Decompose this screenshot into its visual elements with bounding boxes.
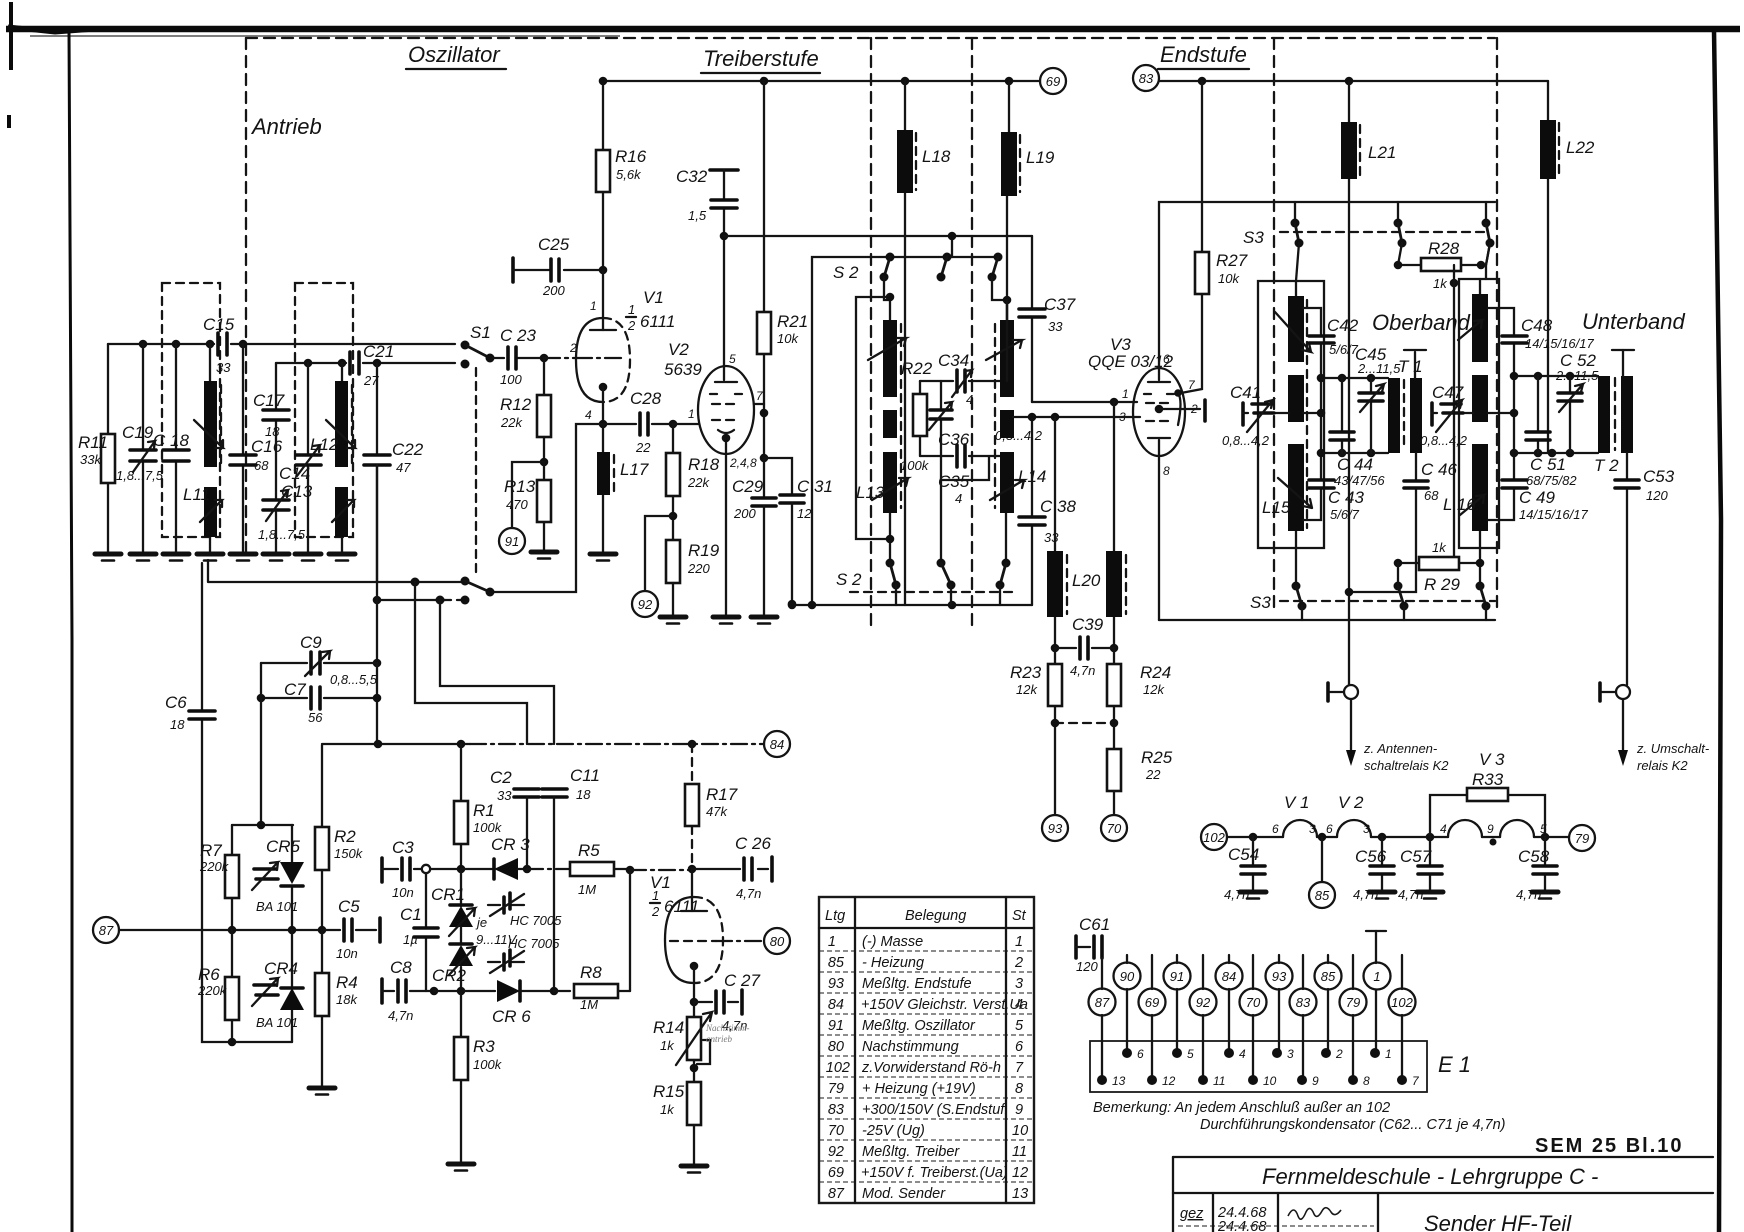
svg-text:6: 6 — [1015, 1039, 1024, 1055]
capacitor C58 to ground — [1541, 833, 1550, 842]
svg-text:R5: R5 — [578, 841, 600, 860]
svg-text:T 2: T 2 — [1594, 456, 1619, 475]
capacitor C7 — [261, 663, 377, 744]
svg-text:C56: C56 — [1355, 847, 1387, 866]
capacitor C53 — [1626, 453, 1628, 685]
svg-text:- Heizung: - Heizung — [862, 955, 924, 971]
svg-text:V 1: V 1 — [1284, 793, 1310, 812]
svg-text:C53: C53 — [1643, 467, 1675, 486]
svg-text:L21: L21 — [1368, 143, 1396, 162]
svg-text:200: 200 — [542, 283, 565, 298]
G_VARACTOR — [322, 740, 764, 1171]
capacitor C21 — [350, 352, 359, 374]
svg-text:91: 91 — [505, 534, 519, 549]
heater V1 — [1283, 820, 1317, 837]
svg-text:9: 9 — [1487, 822, 1494, 836]
node bridge right mid — [288, 926, 297, 935]
capacitor C29 — [763, 458, 765, 498]
inductor L21 — [1348, 81, 1350, 685]
node bridge left mid — [228, 926, 237, 935]
G_V2 — [599, 68, 1066, 624]
pentode V2 5639 — [698, 366, 754, 454]
resistor R19 — [666, 540, 680, 583]
svg-text:8: 8 — [1163, 464, 1170, 478]
svg-text:4,7n: 4,7n — [1070, 663, 1095, 678]
svg-text:220k: 220k — [199, 859, 230, 874]
svg-text:St: St — [1012, 908, 1027, 924]
svg-text:C39: C39 — [1072, 615, 1104, 634]
svg-text:12: 12 — [797, 506, 812, 521]
resistor R4 — [321, 930, 323, 1086]
terminal 92 to pin 11 — [1202, 955, 1204, 1080]
diode CR3 — [494, 858, 518, 880]
svg-text:102: 102 — [1391, 995, 1413, 1010]
svg-text:220: 220 — [687, 561, 710, 576]
svg-text:79: 79 — [828, 1081, 844, 1097]
svg-text:S 2: S 2 — [836, 570, 862, 589]
svg-text:70: 70 — [1107, 821, 1122, 836]
svg-text:83: 83 — [1296, 995, 1311, 1010]
svg-text:L13: L13 — [856, 483, 885, 502]
trimmer capacitor C9 — [261, 662, 377, 664]
svg-text:10k: 10k — [777, 331, 799, 346]
sheet right border — [1714, 30, 1721, 1232]
zener CR2 — [460, 927, 462, 944]
svg-text:+150V Gleichstr. Verst.Ua: +150V Gleichstr. Verst.Ua — [861, 997, 1028, 1013]
svg-text:1: 1 — [590, 299, 597, 313]
capacitor C11 — [542, 789, 567, 797]
svg-text:antrieb: antrieb — [706, 1034, 732, 1044]
S2 ganged-switch dashed linkage lines — [870, 38, 872, 630]
svg-text:R2: R2 — [334, 827, 356, 846]
svg-text:T 1: T 1 — [1398, 357, 1423, 376]
svg-text:CR2: CR2 — [432, 966, 467, 985]
svg-text:C1: C1 — [400, 905, 422, 924]
svg-text:0,8...4,2: 0,8...4,2 — [1222, 433, 1270, 448]
terminal 93 to pin 3 — [1278, 955, 1280, 1053]
sheet top border — [6, 26, 1740, 33]
wire +300V Endstufe bus — [1159, 80, 1548, 82]
wire C34/C35 rows to L14 — [941, 300, 1007, 480]
T2 primary rows — [1514, 376, 1598, 453]
resistor R7 — [231, 825, 233, 930]
capacitor C5 (feedthrough) — [322, 929, 376, 931]
row B wire — [430, 987, 439, 996]
svg-text:2: 2 — [651, 904, 660, 919]
ground under C29 — [751, 617, 777, 624]
capacitor C44 — [1341, 378, 1343, 453]
G_V3 — [1010, 65, 1548, 841]
svg-text:R13: R13 — [504, 477, 536, 496]
terminal 84 — [764, 731, 790, 757]
svg-text:Meßltg. Endstufe: Meßltg. Endstufe — [862, 976, 972, 992]
svg-text:102: 102 — [826, 1060, 850, 1076]
svg-text:68: 68 — [254, 458, 269, 473]
ground under R13 — [531, 552, 557, 559]
svg-text:12: 12 — [1012, 1165, 1028, 1181]
potentiometer R14 — [693, 1002, 695, 1017]
node dots on buses — [139, 340, 148, 349]
capacitor C51 — [1537, 376, 1539, 453]
svg-text:+150V f. Treiberst.(Ua): +150V f. Treiberst.(Ua) — [861, 1165, 1008, 1181]
svg-text:C5: C5 — [338, 897, 360, 916]
svg-text:91: 91 — [828, 1018, 844, 1034]
svg-text:z. Antennen-: z. Antennen- — [1363, 741, 1438, 756]
L15 tank box — [1258, 281, 1324, 548]
svg-text:R3: R3 — [473, 1037, 495, 1056]
terminal 87 to pin 13 — [1101, 958, 1103, 1080]
svg-text:1M: 1M — [578, 882, 596, 897]
svg-text:1: 1 — [828, 934, 836, 950]
svg-text:S3: S3 — [1243, 228, 1264, 247]
svg-text:C57: C57 — [1400, 847, 1432, 866]
svg-text:3: 3 — [1119, 410, 1126, 424]
svg-text:C41: C41 — [1230, 383, 1261, 402]
wire R5/R8 junction vertical — [629, 870, 631, 991]
resistor R18 — [672, 424, 674, 540]
ground under L17 — [590, 554, 616, 561]
switch S1 lower pole — [208, 560, 465, 582]
svg-text:R19: R19 — [688, 541, 720, 560]
svg-text:L17: L17 — [620, 460, 649, 479]
svg-text:C15: C15 — [203, 315, 235, 334]
svg-text:je: je — [475, 915, 487, 930]
wire 87 to bridge — [119, 929, 322, 931]
svg-text:100: 100 — [500, 372, 522, 387]
inductor L15 (tapped coil) — [1295, 281, 1297, 586]
node grid V1 — [540, 354, 549, 363]
wire tank output to V3 grid 3 — [1013, 416, 1140, 418]
svg-text:1: 1 — [1385, 1047, 1392, 1061]
tunnel diode HC7005 lower — [488, 961, 524, 963]
capacitor C32 — [710, 168, 738, 172]
svg-text:14/15/16/17: 14/15/16/17 — [1519, 507, 1588, 522]
svg-text:R15: R15 — [653, 1082, 685, 1101]
svg-text:S1: S1 — [470, 323, 491, 342]
ground under C13 — [263, 554, 289, 561]
inductor L14 (tapped coil) — [992, 277, 1007, 563]
terminal 79 to pin 8 — [1352, 955, 1354, 1080]
svg-text:C 43: C 43 — [1328, 488, 1364, 507]
capacitor C22 — [376, 363, 378, 582]
svg-text:C3: C3 — [392, 838, 414, 857]
svg-text:2: 2 — [1014, 955, 1023, 971]
svg-text:1: 1 — [688, 407, 695, 421]
svg-text:C7: C7 — [284, 680, 306, 699]
svg-text:6: 6 — [1272, 822, 1279, 836]
svg-text:CR1: CR1 — [431, 885, 465, 904]
svg-text:R33: R33 — [1472, 770, 1504, 789]
capacitor C26 (feedthrough) — [692, 868, 768, 870]
svg-text:5: 5 — [1015, 1018, 1024, 1034]
svg-text:1: 1 — [1015, 934, 1023, 950]
svg-text:CR 6: CR 6 — [492, 1007, 531, 1026]
svg-text:4,7n: 4,7n — [1516, 887, 1541, 902]
trimmer capacitor C52 — [1569, 376, 1571, 453]
G_MOD — [93, 563, 380, 1095]
switch S2 lower pole c — [1002, 559, 1011, 568]
svg-text:3: 3 — [1287, 1047, 1294, 1061]
svg-text:C6: C6 — [165, 693, 187, 712]
svg-text:L18: L18 — [922, 147, 951, 166]
bias divider dashed link — [1055, 722, 1114, 724]
svg-text:C14: C14 — [279, 464, 310, 483]
inductor L19 — [1007, 81, 1009, 320]
wire V2 cathode — [725, 438, 727, 615]
wire feedback chain C22 to C9/C7 — [376, 465, 378, 663]
resistor R24 — [1113, 648, 1115, 749]
svg-text:70: 70 — [828, 1123, 844, 1139]
svg-text:4,7n: 4,7n — [1224, 887, 1249, 902]
svg-text:24.4.68: 24.4.68 — [1217, 1219, 1266, 1232]
wire oscillator top bus — [108, 343, 455, 345]
capacitor C31 — [780, 495, 804, 503]
svg-text:85: 85 — [1321, 969, 1336, 984]
svg-text:4,7n: 4,7n — [1353, 887, 1378, 902]
svg-text:1µ: 1µ — [403, 932, 418, 947]
ground under V2 cathode — [713, 617, 739, 624]
svg-text:L20: L20 — [1072, 571, 1101, 590]
varactor diode CR4 with trimmer — [291, 930, 293, 1042]
svg-text:4,7n: 4,7n — [736, 886, 761, 901]
svg-text:R1: R1 — [473, 801, 495, 820]
ground under R15 — [681, 1166, 707, 1173]
svg-text:83: 83 — [828, 1102, 844, 1118]
svg-text:18: 18 — [170, 717, 185, 732]
svg-text:relais K2: relais K2 — [1637, 758, 1688, 773]
svg-text:22k: 22k — [687, 475, 710, 490]
svg-text:C 49: C 49 — [1519, 488, 1555, 507]
resistor R25 — [1107, 749, 1121, 791]
svg-text:33: 33 — [1044, 530, 1059, 545]
svg-text:Meßltg. Treiber: Meßltg. Treiber — [862, 1144, 960, 1160]
svg-text:R4: R4 — [336, 973, 358, 992]
svg-text:4: 4 — [955, 491, 962, 506]
svg-text:HC 7005: HC 7005 — [510, 913, 562, 928]
zener CR1 — [460, 869, 462, 906]
svg-text:Fernmeldeschule - Lehrgruppe: Fernmeldeschule - Lehrgruppe C - — [1262, 1164, 1598, 1189]
svg-text:Ltg: Ltg — [825, 908, 845, 924]
capacitor C49 — [1488, 413, 1514, 520]
svg-text:1k: 1k — [660, 1102, 675, 1117]
svg-text:10n: 10n — [392, 885, 414, 900]
svg-text:92: 92 — [1196, 995, 1211, 1010]
wire S2 upper contact rail — [890, 256, 1000, 258]
svg-text:8: 8 — [1015, 1081, 1023, 1097]
node R14/R15 — [693, 1060, 695, 1082]
svg-text:V 3: V 3 — [1479, 750, 1505, 769]
svg-text:100k: 100k — [473, 1057, 503, 1072]
resistor R29 — [1398, 562, 1480, 564]
trimmer capacitor C14 — [307, 363, 309, 552]
inductor L16 (tapped coil) — [1479, 279, 1481, 586]
svg-text:9: 9 — [1312, 1074, 1319, 1088]
svg-text:4: 4 — [1440, 822, 1447, 836]
ground under R3 — [448, 1164, 474, 1171]
wire cathode feedback to S1 — [492, 424, 603, 592]
capacitor C27 (feedthrough) — [694, 1001, 738, 1003]
svg-text:69: 69 — [828, 1165, 844, 1181]
svg-text:2,4,8: 2,4,8 — [729, 456, 757, 470]
svg-text:4: 4 — [966, 392, 973, 407]
terminal 92 — [645, 516, 673, 591]
capacitor C61 (feedthrough) — [1074, 936, 1078, 958]
wire oscillator second bus — [276, 362, 455, 364]
svg-text:68: 68 — [1424, 488, 1439, 503]
svg-text:9: 9 — [1015, 1102, 1023, 1118]
svg-text:6: 6 — [1163, 352, 1170, 366]
svg-text:Mod. Sender: Mod. Sender — [862, 1186, 946, 1202]
capacitor C54 to ground — [1249, 833, 1258, 842]
svg-text:R12: R12 — [500, 395, 532, 414]
svg-text:Nachstimm-: Nachstimm- — [705, 1023, 750, 1033]
resistor R2 — [321, 745, 323, 930]
svg-text:L11: L11 — [183, 485, 210, 504]
G_V1TOP — [208, 81, 675, 605]
svg-text:87: 87 — [99, 923, 114, 938]
dashed box around L11 tank — [162, 283, 220, 537]
resistor R17 — [691, 744, 693, 784]
svg-text:2: 2 — [627, 318, 636, 333]
svg-text:BA 101: BA 101 — [256, 899, 298, 914]
svg-text:V2: V2 — [668, 340, 689, 359]
terminal 70 — [1101, 815, 1127, 841]
terminal 84 to pin 4 — [1228, 955, 1230, 1053]
svg-text:C2: C2 — [490, 768, 512, 787]
svg-text:56: 56 — [308, 710, 323, 725]
svg-text:1,8...7,5: 1,8...7,5 — [258, 527, 306, 542]
svg-text:3: 3 — [1363, 822, 1370, 836]
svg-text:CR4: CR4 — [264, 959, 298, 978]
svg-text:87: 87 — [828, 1186, 845, 1202]
svg-text:z. Umschalt-: z. Umschalt- — [1636, 741, 1710, 756]
svg-text:79: 79 — [1575, 831, 1589, 846]
terminal 69 to pin 12 — [1151, 955, 1153, 1080]
node plate V1 lower — [688, 865, 697, 874]
svg-text:C29: C29 — [732, 477, 764, 496]
svg-text:68/75/82: 68/75/82 — [1526, 473, 1577, 488]
svg-text:69: 69 — [1145, 995, 1159, 1010]
svg-text:6: 6 — [1137, 1047, 1144, 1061]
terminal 102 — [1201, 824, 1227, 850]
terminal 102 to pin 7 — [1401, 955, 1403, 1080]
trimmer capacitor C45 — [1370, 378, 1372, 453]
svg-text:C34: C34 — [938, 351, 969, 370]
inductor L20 (right) — [1113, 402, 1115, 648]
svg-text:3: 3 — [1309, 822, 1316, 836]
svg-text:10k: 10k — [1218, 271, 1240, 286]
switch S2 lower pole a — [886, 559, 895, 568]
resistor R23 — [1054, 648, 1056, 815]
svg-text:13: 13 — [1112, 1074, 1126, 1088]
svg-text:R28: R28 — [1428, 239, 1460, 258]
switch S1 upper pole — [461, 341, 470, 350]
svg-text:R8: R8 — [580, 963, 602, 982]
svg-text:220k: 220k — [197, 983, 228, 998]
wire V2 plate feed to S2 — [724, 235, 1032, 237]
ground under L11 — [197, 554, 223, 561]
svg-text:200: 200 — [733, 506, 756, 521]
svg-text:92: 92 — [638, 597, 653, 612]
svg-text:10: 10 — [1263, 1074, 1277, 1088]
svg-text:120: 120 — [1076, 959, 1098, 974]
transformer T2 — [1598, 376, 1610, 453]
svg-text:R27: R27 — [1216, 251, 1248, 270]
terminal 83 to pin 9 — [1302, 955, 1304, 1080]
svg-text:80: 80 — [770, 934, 785, 949]
Antrieb dashed border — [245, 38, 247, 560]
capacitor C6 — [202, 563, 232, 1042]
svg-text:C22: C22 — [392, 440, 424, 459]
capacitor C25 (feedthrough) — [511, 258, 515, 282]
terminal 91 — [512, 462, 544, 528]
svg-text:93: 93 — [828, 976, 844, 992]
svg-text:11: 11 — [1012, 1144, 1027, 1160]
capacitor C34 row — [920, 380, 1007, 382]
svg-text:93: 93 — [1272, 969, 1287, 984]
tunnel diode HC7005 upper — [488, 904, 524, 906]
svg-text:10n: 10n — [336, 946, 358, 961]
ground under R19 — [660, 617, 686, 624]
svg-text:C 27: C 27 — [724, 971, 760, 990]
trimmer capacitor C47 — [1430, 403, 1434, 425]
svg-text:CR 3: CR 3 — [491, 835, 530, 854]
svg-text:R18: R18 — [688, 455, 720, 474]
resistor R15 — [687, 1082, 701, 1125]
svg-text:1: 1 — [1122, 387, 1129, 401]
svg-text:R25: R25 — [1141, 748, 1173, 767]
ground under C19 — [130, 554, 156, 561]
inductor L17 — [602, 424, 604, 552]
svg-text:100k: 100k — [900, 458, 930, 473]
svg-text:E 1: E 1 — [1438, 1052, 1471, 1077]
svg-text:5: 5 — [729, 352, 736, 366]
heater V2 — [1337, 820, 1371, 837]
svg-text:4,7n: 4,7n — [388, 1008, 413, 1023]
node cathode V1 lower — [690, 962, 699, 971]
capacitor C46 — [1349, 453, 1416, 592]
svg-text:C48: C48 — [1521, 316, 1553, 335]
svg-text:C54: C54 — [1228, 845, 1259, 864]
svg-text:12k: 12k — [1016, 682, 1038, 697]
S3 ganged-switch dashed linkage lines — [1273, 38, 1275, 610]
svg-text:87: 87 — [1095, 995, 1110, 1010]
svg-text:1M: 1M — [580, 997, 598, 1012]
node cathode bypass — [760, 454, 769, 463]
node R12/R13 — [540, 458, 549, 467]
capacitor C48 — [1488, 308, 1514, 413]
capacitor C57 to ground — [1426, 833, 1435, 842]
svg-text:85: 85 — [1315, 888, 1330, 903]
switch S2 upper pole c — [994, 253, 1003, 262]
node V1 cathode — [599, 420, 608, 429]
svg-text:2: 2 — [569, 341, 577, 355]
S3 bottom common bus — [1159, 619, 1495, 621]
svg-text:C 23: C 23 — [500, 326, 536, 345]
svg-text:C42: C42 — [1327, 316, 1359, 335]
svg-text:1: 1 — [1373, 969, 1380, 984]
terminal 80 — [716, 940, 764, 942]
svg-text:C28: C28 — [630, 389, 662, 408]
svg-text:13: 13 — [1012, 1186, 1028, 1202]
capacitor C39 — [1051, 644, 1060, 653]
capacitor C1 — [425, 873, 427, 991]
capacitor C42 — [1303, 308, 1321, 413]
terminal 90 to pin 6 — [1126, 955, 1128, 1053]
wire S1 pole to C2 — [415, 582, 527, 744]
node R2/R4/C5 — [318, 926, 327, 935]
svg-text:Treiberstufe: Treiberstufe — [703, 46, 819, 71]
